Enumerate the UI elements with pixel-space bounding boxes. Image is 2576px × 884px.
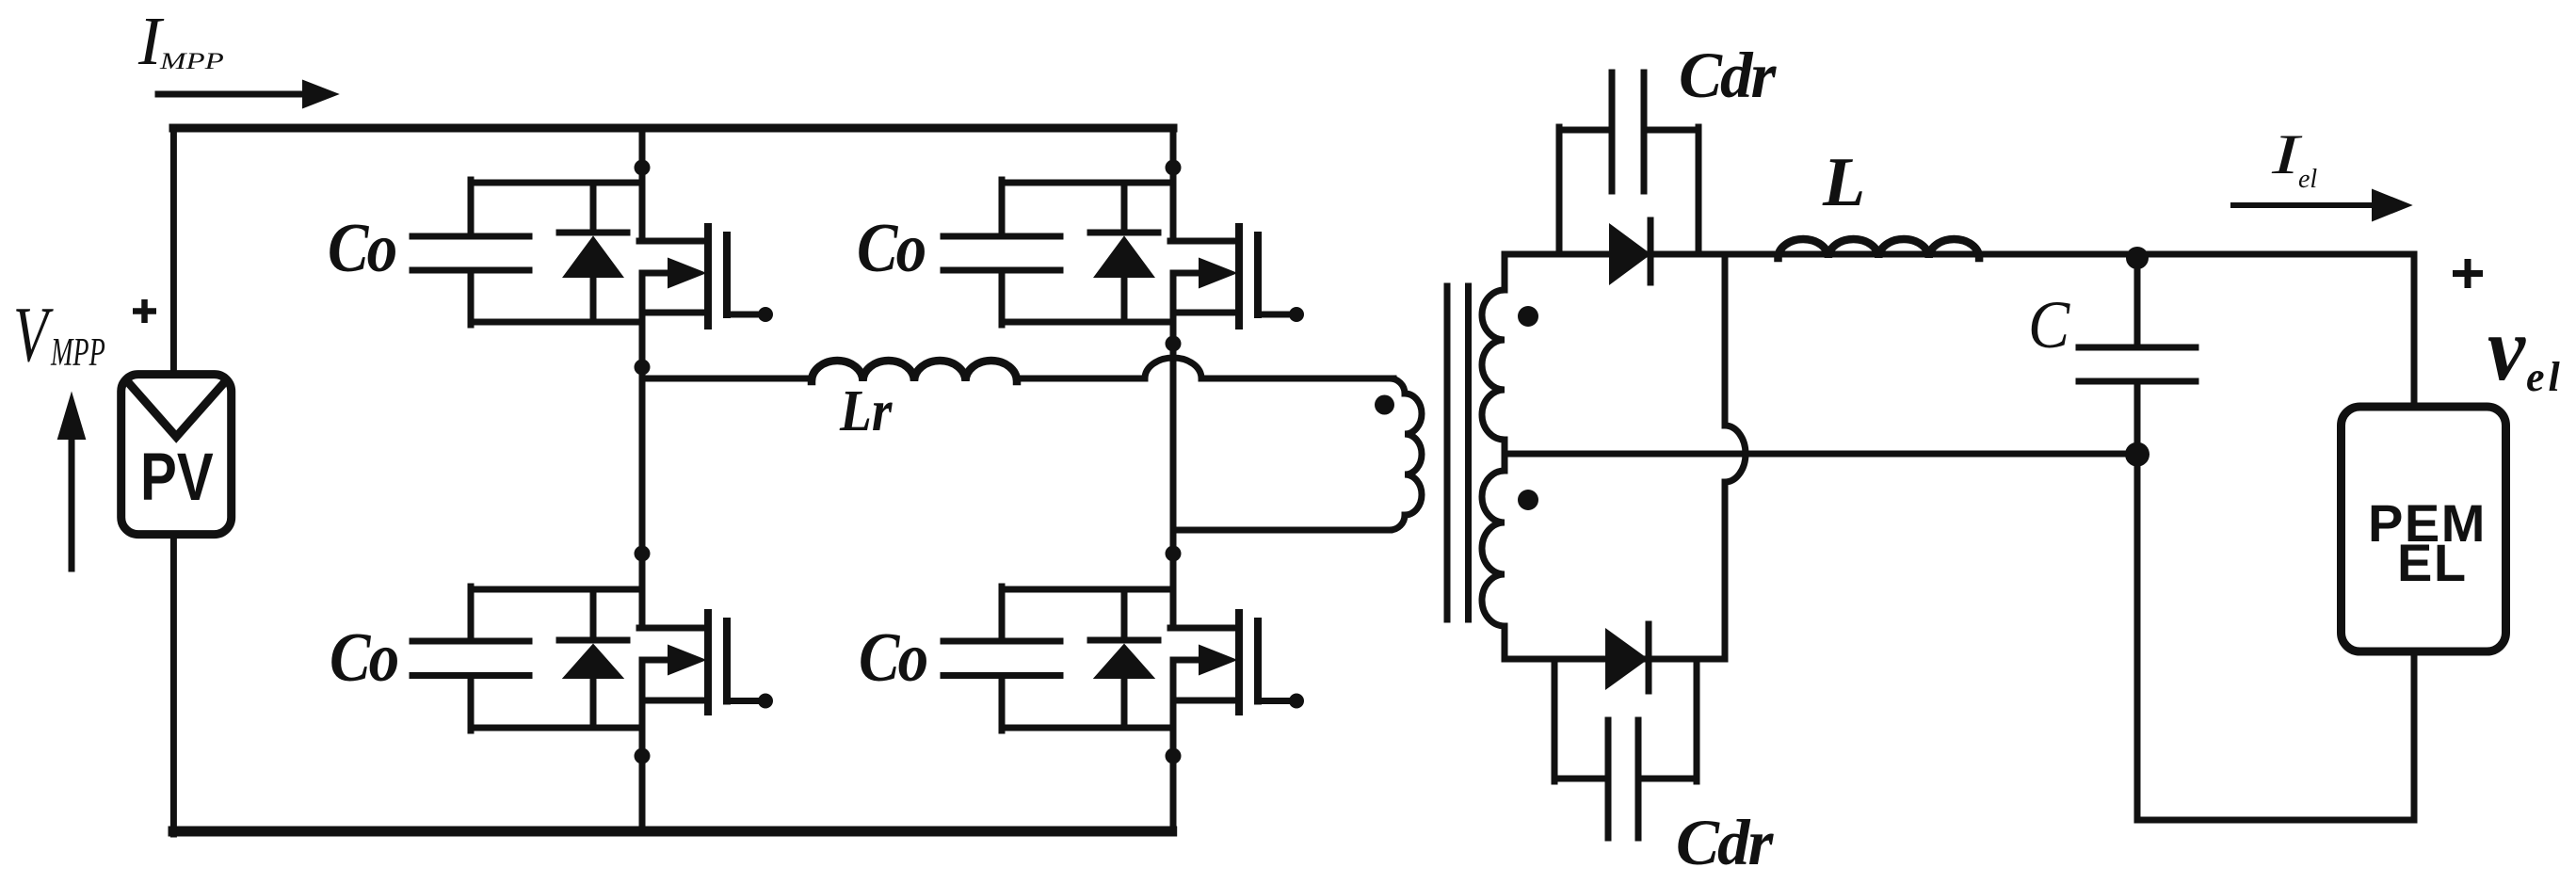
svg-text:v: v bbox=[2487, 298, 2526, 400]
svg-text:C: C bbox=[2028, 286, 2070, 362]
svg-text:EL: EL bbox=[2397, 533, 2468, 592]
svg-text:L: L bbox=[1822, 144, 1865, 221]
svg-text:el: el bbox=[2526, 354, 2564, 400]
svg-text:PV: PV bbox=[140, 439, 214, 514]
svg-text:MPP: MPP bbox=[50, 329, 105, 374]
svg-text:V: V bbox=[13, 290, 54, 378]
svg-text:Co: Co bbox=[857, 210, 925, 287]
svg-text:Cdr: Cdr bbox=[1679, 40, 1778, 111]
svg-text:MPP: MPP bbox=[159, 49, 224, 74]
svg-text:el: el bbox=[2298, 165, 2317, 194]
svg-text:Cdr: Cdr bbox=[1676, 807, 1775, 878]
svg-text:Co: Co bbox=[328, 210, 395, 287]
svg-text:Co: Co bbox=[330, 619, 397, 697]
svg-text:Lr: Lr bbox=[839, 378, 893, 443]
svg-text:Co: Co bbox=[859, 619, 926, 697]
